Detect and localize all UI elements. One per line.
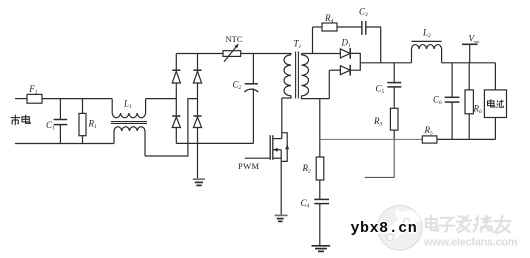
wire feedback L-stub [365, 139, 395, 177]
resistor R6 [465, 63, 473, 140]
ground under C4 [312, 246, 331, 252]
wire snubber left riser [312, 27, 314, 54]
node mains live terminal / wire [15, 98, 27, 100]
capacitor C2 electrolytic [244, 54, 258, 144]
label battery text 电池 [488, 99, 504, 108]
wire D1 outputs merge [350, 53, 360, 70]
diode VD3 bridge bottom-left [172, 116, 180, 128]
capacitor C4 [314, 199, 329, 203]
wire [337, 26, 362, 28]
resistor R3 [390, 108, 398, 130]
capacitor C5 branch [387, 63, 401, 109]
wire bridge right leg [197, 54, 199, 71]
wire bridge left leg [175, 54, 177, 71]
thermistor NTC [223, 44, 241, 62]
diode D1 upper [340, 48, 350, 59]
inductor L2 [412, 41, 442, 62]
wire top rail to C1,R1,L1 [42, 98, 112, 100]
watermark 电子发烧友 [426, 215, 511, 233]
wire [319, 204, 321, 246]
wire output rail to L2 [360, 62, 411, 64]
node mains neutral terminal / bottom wire [15, 143, 114, 145]
capacitor C1 [54, 99, 68, 144]
wire snubber right riser [366, 27, 381, 63]
inductor L1 common-mode choke [111, 99, 147, 156]
resistor R1 [79, 99, 86, 144]
resistor R5 current sense [422, 136, 437, 143]
watermark logo circle [378, 205, 423, 250]
fuse F1 [27, 94, 42, 103]
wire bridge top rail [176, 53, 223, 55]
wire R3 down through rail [393, 130, 395, 139]
wire bridge negative rail [176, 142, 253, 144]
diode VD1 bridge top-left [172, 70, 180, 83]
svg-text:NTC: NTC [226, 34, 243, 44]
svg-text:ybx8.cn: ybx8.cn [351, 220, 418, 237]
diode VD4 bridge bottom-right [193, 116, 201, 128]
wire output top rail [442, 62, 496, 64]
transformer T1 [282, 52, 330, 99]
wire secondary top to D1 [302, 53, 341, 55]
diode VD2 bridge top-right [193, 70, 201, 83]
capacitor C3 snubber [362, 21, 366, 35]
node Vout terminal [462, 44, 478, 63]
wire D1 lower anode riser [328, 70, 330, 98]
resistor R4 snubber [322, 23, 337, 31]
wire R2 branch from secondary bottom [319, 99, 321, 157]
wire top rail to bridge [146, 98, 177, 100]
resistor R2 [316, 157, 324, 180]
transistor Q1 PWM MOSFET [245, 98, 290, 215]
diode D1 lower [329, 65, 350, 76]
label mains 市电 [11, 115, 31, 126]
wire secondary return rail [320, 138, 423, 140]
wire L1 bottom output to bridge right leg [145, 99, 198, 156]
battery 电池 [484, 63, 506, 140]
wire snubber top rail [313, 26, 323, 28]
wire return rail right of R5 [437, 138, 496, 140]
capacitor C6 [445, 63, 460, 140]
svg-text:www.elecfans.com: www.elecfans.com [423, 237, 518, 249]
ground primary under bridge [193, 179, 205, 185]
wire top rail NTC to transformer [241, 53, 291, 55]
wire [319, 180, 321, 199]
ground under MOSFET source [275, 215, 288, 221]
svg-text:PWM: PWM [238, 161, 260, 171]
